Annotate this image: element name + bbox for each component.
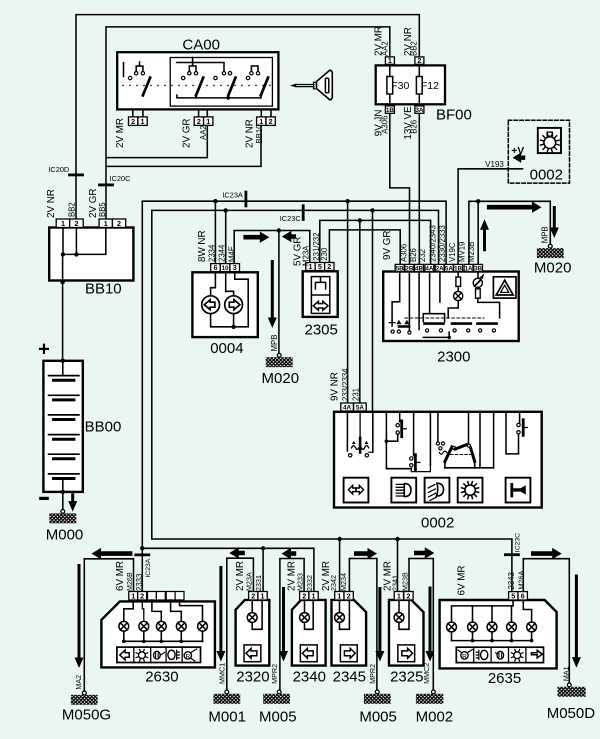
arrow right on 2635 return bbox=[531, 548, 562, 559]
ignition key icon bbox=[290, 70, 332, 99]
ground M050D bbox=[567, 683, 571, 687]
0002 turn-signal switch contacts bbox=[347, 412, 372, 457]
svg-text:9V GR: 9V GR bbox=[382, 231, 393, 260]
svg-text:6: 6 bbox=[214, 263, 218, 272]
arrow down to M020 top bbox=[550, 206, 559, 238]
svg-text:3B: 3B bbox=[474, 265, 482, 272]
control unit 0002 (clock symbol) bbox=[508, 120, 569, 183]
svg-text:0004: 0004 bbox=[210, 340, 243, 357]
2635 return wire to M050D bbox=[523, 559, 569, 683]
arrow right on MPB wire bbox=[243, 232, 269, 243]
wire net V193: 2300 pin1B to 0002 command box bbox=[458, 169, 522, 265]
wire 231 branch down to 0002 pin 5A bbox=[359, 220, 361, 403]
svg-text:233/2334: 233/2334 bbox=[341, 368, 350, 401]
long arrow down to M001 bbox=[216, 566, 225, 662]
2320 return wire to M001 bbox=[227, 558, 254, 690]
junction dot M23B bbox=[476, 199, 480, 203]
svg-text:M233: M233 bbox=[295, 573, 304, 591]
svg-text:M020: M020 bbox=[534, 260, 572, 277]
svg-text:1: 1 bbox=[312, 592, 316, 601]
ground M005 bbox=[277, 690, 281, 694]
svg-text:IC20C: IC20C bbox=[110, 174, 132, 183]
svg-text:1: 1 bbox=[141, 117, 145, 126]
ground M020 (middle) bbox=[277, 353, 281, 357]
2300 lamp with resistor (pin 1B) bbox=[457, 272, 459, 278]
0002 icon horn bbox=[506, 478, 531, 503]
front left lamp unit 2630 bbox=[101, 592, 214, 686]
wire net AA2: BB10 pin to BF00 pin 1 bbox=[106, 27, 390, 219]
svg-text:2A: 2A bbox=[436, 265, 444, 272]
svg-text:BB10: BB10 bbox=[85, 281, 122, 298]
arrow down to M020 bbox=[268, 260, 277, 328]
instrument cluster 0004 bbox=[192, 272, 257, 357]
svg-text:2345: 2345 bbox=[333, 668, 366, 685]
svg-text:1B: 1B bbox=[454, 265, 462, 272]
svg-text:2: 2 bbox=[251, 592, 255, 601]
svg-text:BB10: BB10 bbox=[255, 124, 264, 144]
junction dot bus2-0002 branch bbox=[370, 208, 374, 212]
svg-text:1: 1 bbox=[104, 219, 108, 228]
ground M002 bbox=[432, 690, 436, 694]
svg-text:M050G: M050G bbox=[62, 707, 111, 724]
svg-text:6: 6 bbox=[521, 592, 525, 601]
svg-text:MA1: MA1 bbox=[561, 666, 570, 681]
svg-text:2635: 2635 bbox=[488, 670, 521, 687]
ground M005 second bbox=[375, 690, 379, 694]
connector tick IC23C at 2635 bbox=[505, 553, 518, 556]
wire net BB2: CA00/BB10 to BF00 pin 2 bbox=[76, 15, 419, 219]
svg-text:BB5: BB5 bbox=[98, 202, 107, 217]
svg-text:IC20D: IC20D bbox=[48, 165, 69, 174]
2345 pins bbox=[335, 592, 344, 601]
arrow right on 2345 return bbox=[354, 548, 377, 559]
svg-text:2340: 2340 bbox=[293, 668, 326, 685]
wire 0004 pin6 feed from bus1 bbox=[214, 201, 216, 263]
svg-text:10: 10 bbox=[222, 265, 229, 272]
bus IC23C horizontal y=210.4 with left drop to bottom rail bbox=[152, 210, 512, 591]
ground M020 (top right) bbox=[548, 244, 552, 248]
2300 internal contact mechanism bbox=[405, 317, 484, 319]
svg-text:M23A: M23A bbox=[302, 245, 311, 266]
front right lamp unit 2635 bbox=[440, 600, 557, 687]
svg-text:2325: 2325 bbox=[390, 668, 423, 685]
svg-text:2: 2 bbox=[197, 117, 201, 126]
svg-text:MPB: MPB bbox=[540, 226, 549, 243]
svg-text:2: 2 bbox=[131, 117, 135, 126]
svg-text:4A: 4A bbox=[425, 265, 433, 272]
svg-text:2332: 2332 bbox=[305, 575, 314, 591]
CA00 pin pair 2V GR / AA2 bbox=[194, 117, 203, 126]
svg-text:2: 2 bbox=[140, 592, 144, 601]
BF00 pin 3A bbox=[415, 106, 424, 113]
arrow left on 2630 return bbox=[92, 548, 133, 559]
lamp unit 2320 bbox=[236, 600, 270, 685]
svg-text:M234: M234 bbox=[339, 573, 348, 591]
svg-text:M005: M005 bbox=[259, 708, 297, 725]
svg-text:1: 1 bbox=[61, 219, 65, 228]
0002 wiper/push switch left bbox=[385, 412, 412, 469]
svg-text:1B: 1B bbox=[386, 107, 395, 114]
wire net MPB: 0004 pin3 - M020 - 2305 pin1 bbox=[234, 231, 310, 264]
svg-text:MA2: MA2 bbox=[74, 675, 83, 690]
svg-text:2340/2343: 2340/2343 bbox=[428, 225, 437, 262]
0004 pin 3 bbox=[230, 264, 240, 272]
wire net M020top: 2300 pins 1A/3B to ground M020 bbox=[469, 201, 550, 264]
0002 light rotary switch centre bbox=[436, 412, 493, 468]
svg-text:2: 2 bbox=[117, 219, 121, 228]
svg-text:2V NR: 2V NR bbox=[245, 119, 256, 148]
svg-text:V19C: V19C bbox=[448, 242, 457, 262]
0004 pin 6 bbox=[211, 264, 221, 272]
wire branch from bus2 down to 0002 box top bbox=[372, 210, 374, 411]
ground M001 bbox=[225, 690, 229, 694]
wire MPB branch down to ground M020 bbox=[278, 231, 280, 354]
long arrow down to M005 second bbox=[375, 587, 384, 662]
svg-text:2333: 2333 bbox=[135, 574, 144, 591]
svg-text:2334: 2334 bbox=[208, 244, 217, 262]
flasher unit 2305 bbox=[303, 271, 338, 338]
arrow left on 2320 return bbox=[229, 547, 245, 558]
svg-text:2: 2 bbox=[347, 592, 351, 601]
wire net B26: BF00 pin3A to 2300 pin 4B bbox=[418, 113, 420, 264]
svg-text:CA00: CA00 bbox=[182, 37, 220, 54]
svg-text:2330/2333: 2330/2333 bbox=[438, 225, 447, 262]
fuse box BF00 bbox=[376, 65, 472, 123]
svg-text:M001: M001 bbox=[208, 708, 246, 725]
ignition switch CA00 bbox=[117, 37, 278, 117]
svg-text:MPB: MPB bbox=[270, 335, 279, 352]
svg-text:2630: 2630 bbox=[145, 668, 178, 685]
svg-text:4B: 4B bbox=[415, 265, 423, 272]
svg-text:231: 231 bbox=[351, 388, 360, 401]
BF00 pin 2 bbox=[415, 57, 424, 64]
svg-text:2320: 2320 bbox=[236, 668, 269, 685]
svg-text:BB2: BB2 bbox=[410, 41, 419, 56]
svg-text:5B: 5B bbox=[396, 265, 404, 272]
CA00 pin pair 2V MR bbox=[129, 117, 138, 126]
svg-text:B26: B26 bbox=[410, 120, 419, 134]
fuse F12 bbox=[418, 65, 420, 103]
BB10 pin pair 1 (2V NR/BB2) bbox=[56, 219, 69, 228]
svg-text:6V MR: 6V MR bbox=[457, 566, 468, 596]
svg-text:2: 2 bbox=[269, 117, 273, 126]
svg-text:5A: 5A bbox=[356, 405, 365, 412]
BF00 pin 1 bbox=[385, 57, 394, 64]
svg-text:2331: 2331 bbox=[254, 575, 263, 591]
2300 pin row bbox=[395, 264, 404, 271]
BF00 pin 1B bbox=[385, 106, 394, 113]
connector tick IC23A at 2630 bbox=[136, 554, 149, 557]
lamp unit 2325 bbox=[389, 600, 424, 685]
2340 pins bbox=[300, 592, 309, 601]
svg-text:2: 2 bbox=[74, 219, 78, 228]
svg-text:MPR2: MPR2 bbox=[270, 664, 279, 684]
wire branch from bus1 down to 0002 pin 4A bbox=[347, 201, 349, 403]
svg-text:1A: 1A bbox=[465, 265, 473, 272]
2635 pin 5 bbox=[509, 592, 518, 600]
junction dot 2320 feed bbox=[261, 546, 265, 550]
svg-text:IC23A: IC23A bbox=[222, 191, 243, 200]
fuse F30 bbox=[389, 65, 391, 103]
svg-text:2V NR: 2V NR bbox=[46, 189, 57, 218]
svg-text:2: 2 bbox=[327, 262, 331, 271]
svg-text:5: 5 bbox=[318, 262, 322, 271]
svg-text:2: 2 bbox=[302, 592, 306, 601]
arrow left on 2340 return bbox=[282, 548, 297, 559]
svg-text:AA2: AA2 bbox=[199, 125, 208, 140]
svg-text:2: 2 bbox=[417, 56, 421, 65]
2325 return wire to M002 bbox=[409, 559, 433, 691]
steering column switch unit 0002 bbox=[334, 412, 542, 532]
wire net 230: 2305 pin2 to 2300 pin 5B bbox=[329, 230, 400, 265]
wire 2325 feed bbox=[397, 539, 399, 592]
svg-text:1: 1 bbox=[397, 592, 401, 601]
svg-text:1: 1 bbox=[388, 56, 392, 65]
junction dot bus1-0002 feed bbox=[345, 199, 349, 203]
svg-text:M002: M002 bbox=[416, 708, 454, 725]
wire net 231/232: 2305 pin5 to 2300 pin 4A bbox=[320, 220, 431, 264]
0002 pins 4A 5A bbox=[341, 403, 354, 411]
ground M000 bbox=[61, 510, 65, 514]
svg-text:1: 1 bbox=[337, 592, 341, 601]
wire 3B up to junction bbox=[477, 201, 479, 264]
svg-text:IC23C: IC23C bbox=[280, 214, 302, 223]
wire net A306: BF00 pin1B to 2300 pin 2B bbox=[390, 113, 410, 264]
junction dot 231 branch bbox=[358, 218, 362, 222]
bus IC23A horizontal y=201 with left drop to 2630 bbox=[142, 201, 446, 591]
svg-text:2341: 2341 bbox=[391, 575, 400, 591]
svg-text:V193: V193 bbox=[485, 160, 504, 169]
junction dot bus2-0004 bbox=[224, 208, 228, 212]
lamp unit 2340 bbox=[292, 600, 326, 685]
svg-text:2V GR: 2V GR bbox=[182, 119, 193, 148]
2635 pin 6 bbox=[518, 592, 527, 600]
wire from CA00 pin AA2 down-left bbox=[107, 125, 208, 157]
svg-text:M26B: M26B bbox=[125, 572, 134, 591]
2345 return wire to M005 second bbox=[349, 559, 377, 691]
0004 pin 10 bbox=[220, 264, 230, 272]
svg-text:M050D: M050D bbox=[547, 705, 596, 722]
svg-text:2B: 2B bbox=[405, 265, 413, 272]
battery BB00 bbox=[38, 339, 121, 501]
svg-text:M26A: M26A bbox=[516, 571, 525, 590]
svg-text:M23B: M23B bbox=[401, 572, 410, 591]
0002 icon low beam bbox=[391, 478, 416, 503]
svg-text:M23B: M23B bbox=[467, 242, 476, 262]
long arrow down to M050G bbox=[75, 564, 84, 668]
long arrow down to M002 bbox=[426, 587, 435, 662]
svg-text:2342: 2342 bbox=[329, 575, 338, 591]
wire 2320 feed bbox=[262, 548, 264, 591]
svg-text:9V NR: 9V NR bbox=[329, 372, 340, 401]
long arrow down to M050D bbox=[572, 575, 581, 668]
connector tick IC20C bbox=[100, 183, 113, 186]
junction box BB10 bbox=[49, 228, 133, 298]
lamp unit 2345 bbox=[332, 600, 367, 685]
connector tick IC23C on bus2 bbox=[302, 206, 305, 220]
wire 2345 feed bbox=[339, 539, 341, 592]
connector tick IC23A on bus1 bbox=[244, 192, 247, 206]
svg-text:230: 230 bbox=[320, 247, 329, 261]
2320 pins bbox=[249, 592, 258, 601]
wire battery to ground M000 bbox=[62, 492, 64, 510]
junction dots on IC23C bottom rail bbox=[337, 537, 341, 541]
2630 pin 2 bbox=[138, 592, 147, 601]
2630 pin 1 bbox=[129, 592, 138, 601]
svg-text:F30: F30 bbox=[391, 80, 409, 92]
svg-text:MV19: MV19 bbox=[458, 242, 467, 262]
svg-text:5: 5 bbox=[511, 592, 515, 601]
arrow right on M020top wire bbox=[487, 202, 542, 213]
svg-text:8W NR: 8W NR bbox=[197, 230, 208, 262]
svg-text:F12: F12 bbox=[421, 80, 439, 92]
junction dot MPB branch bbox=[277, 228, 281, 232]
svg-text:1: 1 bbox=[206, 117, 210, 126]
CA00 pin pair 2V NR / BB10 bbox=[257, 117, 266, 126]
svg-text:2V MR: 2V MR bbox=[115, 118, 126, 148]
svg-text:MPR2: MPR2 bbox=[368, 664, 377, 684]
bottom distribution line IC23A bbox=[142, 548, 314, 591]
BB10 pin pair 2 (2V GR/BB5) bbox=[99, 219, 112, 228]
0002 icon turn signals bbox=[344, 478, 369, 503]
svg-text:2300: 2300 bbox=[437, 348, 470, 365]
hazard warning switch 2300 bbox=[383, 272, 519, 366]
0002 headlamp switch middle-left bbox=[410, 412, 431, 472]
svg-text:2344: 2344 bbox=[217, 244, 226, 262]
wire from CA00 pin BB10 down-left bbox=[107, 125, 261, 166]
svg-text:M23A: M23A bbox=[244, 572, 253, 591]
svg-text:232: 232 bbox=[418, 249, 427, 262]
svg-text:A306: A306 bbox=[400, 244, 409, 262]
svg-text:0002: 0002 bbox=[421, 514, 454, 531]
svg-text:1: 1 bbox=[261, 592, 265, 601]
svg-text:M005: M005 bbox=[359, 708, 397, 725]
svg-text:IC23C: IC23C bbox=[514, 533, 521, 552]
svg-text:BF00: BF00 bbox=[436, 107, 472, 124]
0002 horn push switch right bbox=[506, 412, 527, 454]
arrow right on 2325 return bbox=[414, 547, 434, 558]
arrow down to M000 bbox=[68, 493, 77, 511]
svg-text:0002: 0002 bbox=[530, 167, 563, 184]
2300 indicator lamp with arrow (pin 3B) bbox=[477, 272, 479, 279]
svg-text:MMC1: MMC1 bbox=[218, 663, 227, 684]
2300 hazard triangle icon bbox=[493, 277, 516, 298]
junction dot bus1-0004 bbox=[213, 199, 217, 203]
long arrow down to M005 bbox=[279, 587, 288, 662]
junction dot at 2630 drop bbox=[140, 546, 144, 550]
svg-text:BB2: BB2 bbox=[67, 202, 76, 217]
2325 pins bbox=[394, 592, 403, 601]
svg-text:A306: A306 bbox=[381, 116, 390, 134]
arrow up beside M23B wire bbox=[480, 219, 489, 251]
svg-text:B26: B26 bbox=[409, 248, 418, 262]
svg-text:5A: 5A bbox=[445, 265, 453, 272]
2340 return wire to M005 bbox=[280, 559, 304, 691]
svg-text:3: 3 bbox=[233, 263, 237, 272]
svg-text:R: R bbox=[185, 653, 190, 660]
svg-text:M020: M020 bbox=[262, 370, 300, 387]
svg-text:IC23A: IC23A bbox=[145, 558, 152, 577]
svg-text:4A: 4A bbox=[343, 405, 352, 412]
0002 icon lighting bbox=[458, 478, 483, 503]
svg-text:3A: 3A bbox=[415, 107, 424, 114]
svg-text:2343: 2343 bbox=[507, 572, 516, 589]
svg-text:2305: 2305 bbox=[305, 321, 338, 338]
0002 icon fog lamp bbox=[425, 478, 450, 503]
2630 return wire to M050G bbox=[84, 559, 133, 691]
arrow left on MPB wire bbox=[282, 231, 296, 242]
svg-text:1: 1 bbox=[131, 592, 135, 601]
connector tick IC20D bbox=[70, 173, 83, 176]
svg-text:R: R bbox=[462, 653, 467, 660]
svg-text:AA2: AA2 bbox=[381, 41, 390, 56]
svg-text:M000: M000 bbox=[46, 526, 84, 543]
svg-text:+: + bbox=[38, 339, 50, 361]
ground M050G bbox=[82, 691, 86, 695]
svg-text:M4E: M4E bbox=[227, 246, 236, 262]
wire 0004 pin10 feed from bus2 bbox=[225, 210, 227, 263]
svg-text:2: 2 bbox=[406, 592, 410, 601]
wire BB10 to battery bbox=[62, 282, 64, 360]
2305 pins 1 5 2 bbox=[306, 263, 315, 271]
svg-text:BB00: BB00 bbox=[85, 419, 122, 436]
